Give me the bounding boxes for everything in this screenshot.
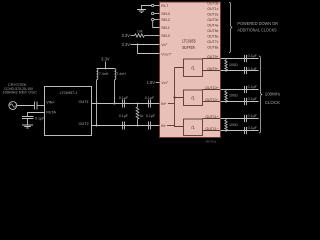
svg-text:POWERED DOWN OR: POWERED DOWN OR — [237, 21, 278, 26]
svg-text:0.1µF: 0.1µF — [145, 96, 155, 100]
wire junction to VOUT+ — [138, 45, 160, 54]
divider block /1 (top) — [184, 59, 203, 77]
wire FILT to ground — [142, 6, 152, 10]
svg-text:3.3V: 3.3V — [122, 33, 131, 38]
svg-text:OUT0±: OUT0± — [207, 2, 218, 6]
brace unused outputs — [229, 2, 232, 52]
svg-text:CLOCKS: CLOCKS — [265, 100, 280, 105]
svg-text:0.1µF: 0.1µF — [146, 114, 156, 118]
svg-text:OUT2±: OUT2± — [207, 13, 218, 17]
wire 3.3V to VD+ — [131, 44, 160, 46]
capacitor C1 0.1uF (IN+ line) — [123, 100, 125, 108]
wire IN+ to bus — [168, 103, 175, 105]
wire divider3 to OUT11- — [203, 130, 221, 132]
wire IN- to bus — [167, 125, 175, 127]
wire OUT10- — [221, 101, 259, 103]
svg-text:FILTA: FILTA — [46, 110, 56, 114]
node junction R1 top — [137, 103, 139, 105]
wire L1 down to IN- line — [96, 80, 98, 126]
svg-text:LTC6957-1: LTC6957-1 — [60, 91, 78, 95]
wire divider3 to OUT11+ — [203, 118, 221, 120]
svg-text:0.1µF: 0.1µF — [248, 85, 258, 89]
capacitor C10 (OUT11-) — [245, 127, 247, 134]
inductor L1 4.7nH — [97, 69, 98, 80]
svg-text:7.4nH: 7.4nH — [99, 72, 109, 76]
wire OUT10+ — [221, 89, 259, 91]
capacitor C5 (OUT9+) — [245, 55, 247, 62]
svg-text:10k: 10k — [137, 29, 143, 33]
inductor L2 4.7nH — [115, 69, 116, 80]
svg-text:OUT3±: OUT3± — [207, 18, 218, 22]
wire cap to box IN — [37, 105, 45, 107]
wire OUT11+ — [221, 118, 259, 120]
svg-text:6955 TA01a: 6955 TA01a — [206, 140, 217, 144]
wire osc to cap — [17, 105, 35, 107]
svg-text:7.4nH: 7.4nH — [116, 72, 126, 76]
svg-text:OUT1: OUT1 — [79, 100, 89, 104]
buffer U2 LTC6957-1 body — [45, 87, 92, 136]
wire OUT1 to IN+ — [92, 103, 160, 105]
terminal circle SEL3 — [152, 12, 154, 14]
svg-text:SEL1: SEL1 — [161, 26, 170, 30]
node junction on bus — [173, 96, 175, 98]
wire FILT stub — [154, 5, 160, 7]
node junction R1 bottom — [137, 125, 139, 127]
svg-text:OUT11−: OUT11− — [206, 127, 219, 131]
svg-text:OUT9+: OUT9+ — [207, 55, 218, 59]
resistor R2 100 (OUT9 term) — [225, 59, 227, 73]
svg-text:SEL0: SEL0 — [161, 34, 170, 38]
divider block /1 (bottom) — [184, 119, 203, 136]
terminal circle FILT — [152, 4, 154, 6]
capacitor C (FILTA bypass) — [22, 117, 34, 119]
svg-text:FILT: FILT — [161, 4, 169, 8]
svg-text:OUT7±: OUT7± — [207, 40, 218, 44]
ground (FILT pin) — [137, 10, 146, 13]
svg-text:OUT1±: OUT1± — [207, 7, 218, 11]
svg-text:OUT5±: OUT5± — [207, 29, 218, 33]
IC U1 LTC6955 body — [160, 2, 221, 138]
svg-text:1.8V: 1.8V — [147, 80, 156, 85]
wire OUT9+ — [221, 58, 259, 60]
wire OUT9- — [221, 70, 259, 72]
svg-text:100Ω: 100Ω — [229, 63, 238, 67]
wire SEL2 stub — [154, 19, 160, 21]
wire 3.3V down — [105, 62, 107, 69]
capacitor C7 (OUT10+) — [245, 86, 247, 93]
svg-text:VIN+: VIN+ — [46, 101, 55, 105]
svg-text:OUT8±: OUT8± — [207, 46, 218, 50]
svg-text:OUT2: OUT2 — [79, 122, 89, 126]
wire 1.8V stub — [156, 82, 160, 84]
svg-text:SEL2: SEL2 — [161, 18, 170, 22]
resistor R1 1k (between lines) — [136, 104, 139, 126]
svg-text:100MHz: 100MHz — [265, 92, 280, 97]
wire SEL2 to SEL1 — [153, 21, 160, 28]
ground (FILTA cap) — [22, 125, 33, 128]
wire cap to ground — [27, 119, 29, 126]
brace clock outputs — [259, 56, 262, 133]
wire divider1 to OUT9+ — [203, 58, 221, 60]
svg-text:BUFFER: BUFFER — [182, 45, 195, 50]
svg-text:OUT10−: OUT10− — [205, 98, 218, 102]
svg-text:3.3V: 3.3V — [122, 42, 131, 47]
capacitor C9 (OUT11+) — [245, 115, 247, 122]
svg-text:0.1µF: 0.1µF — [248, 126, 258, 130]
svg-text:0.1µF: 0.1µF — [35, 116, 45, 120]
capacitor C3 0.1uF (IN- line) — [123, 122, 125, 130]
svg-text:0.1µF: 0.1µF — [119, 114, 129, 118]
svg-text:1k: 1k — [140, 114, 144, 118]
node junction VD+ — [137, 44, 139, 46]
svg-text:0.1µF: 0.1µF — [248, 97, 258, 101]
node junction L1/IN- — [96, 125, 98, 127]
svg-text:SEL3: SEL3 — [161, 12, 170, 16]
wire L2 down to IN+ line — [114, 80, 116, 104]
svg-text:OUT4±: OUT4± — [207, 24, 218, 28]
svg-text:LTC6955: LTC6955 — [182, 38, 196, 43]
node junction L2/IN+ — [114, 103, 116, 105]
svg-text:0.1µF: 0.1µF — [119, 96, 129, 100]
oscillator X1 symbol — [9, 102, 17, 110]
capacitor C2 0.1uF (IN+ line) — [149, 100, 151, 108]
capacitor C8 (OUT10-) — [245, 98, 247, 105]
svg-text:OUT11+: OUT11+ — [206, 115, 219, 119]
wire T split — [97, 68, 115, 70]
capacitor C6 (OUT9-) — [245, 67, 247, 74]
svg-text:0.1µF: 0.1µF — [248, 67, 258, 71]
wire OUT2 to IN- — [92, 125, 160, 127]
wire divider2 to OUT10+ — [203, 89, 221, 91]
svg-text:0.1µF: 0.1µF — [248, 54, 258, 58]
wire resistor to SEL0 — [145, 35, 160, 37]
svg-text:100MHz REF OSC: 100MHz REF OSC — [2, 90, 37, 95]
resistor 10k (SEL0 pullup) — [135, 34, 145, 37]
svg-text:100Ω: 100Ω — [229, 94, 238, 98]
capacitor (osc coupling) — [35, 102, 38, 110]
svg-text:0.1µF: 0.1µF — [248, 114, 258, 118]
terminal circle SEL2 — [152, 18, 154, 20]
wire divider2 to OUT10- — [203, 101, 221, 103]
resistor R3 100 (OUT10 term) — [225, 90, 227, 104]
svg-text:3.3V: 3.3V — [101, 57, 110, 62]
wire divider1 to OUT9- — [203, 70, 221, 72]
resistor R4 100 (OUT11 term) — [225, 119, 227, 133]
wire SEL3 stub — [154, 13, 160, 15]
svg-text:ADDITIONAL CLOCKS: ADDITIONAL CLOCKS — [237, 27, 276, 32]
wire OUT11- — [221, 130, 259, 132]
divider block /1 (middle) — [184, 90, 203, 106]
svg-text:OUT10+: OUT10+ — [205, 86, 218, 90]
wire FILTA to bypass cap — [28, 113, 45, 117]
internal input bus — [175, 68, 184, 127]
svg-text:OUT6±: OUT6± — [207, 35, 218, 39]
wire 3.3V to resistor — [131, 35, 135, 37]
svg-text:100Ω: 100Ω — [229, 123, 238, 127]
svg-text:OUT9−: OUT9− — [207, 67, 218, 71]
capacitor C4 0.1uF (IN- line) — [149, 122, 151, 130]
